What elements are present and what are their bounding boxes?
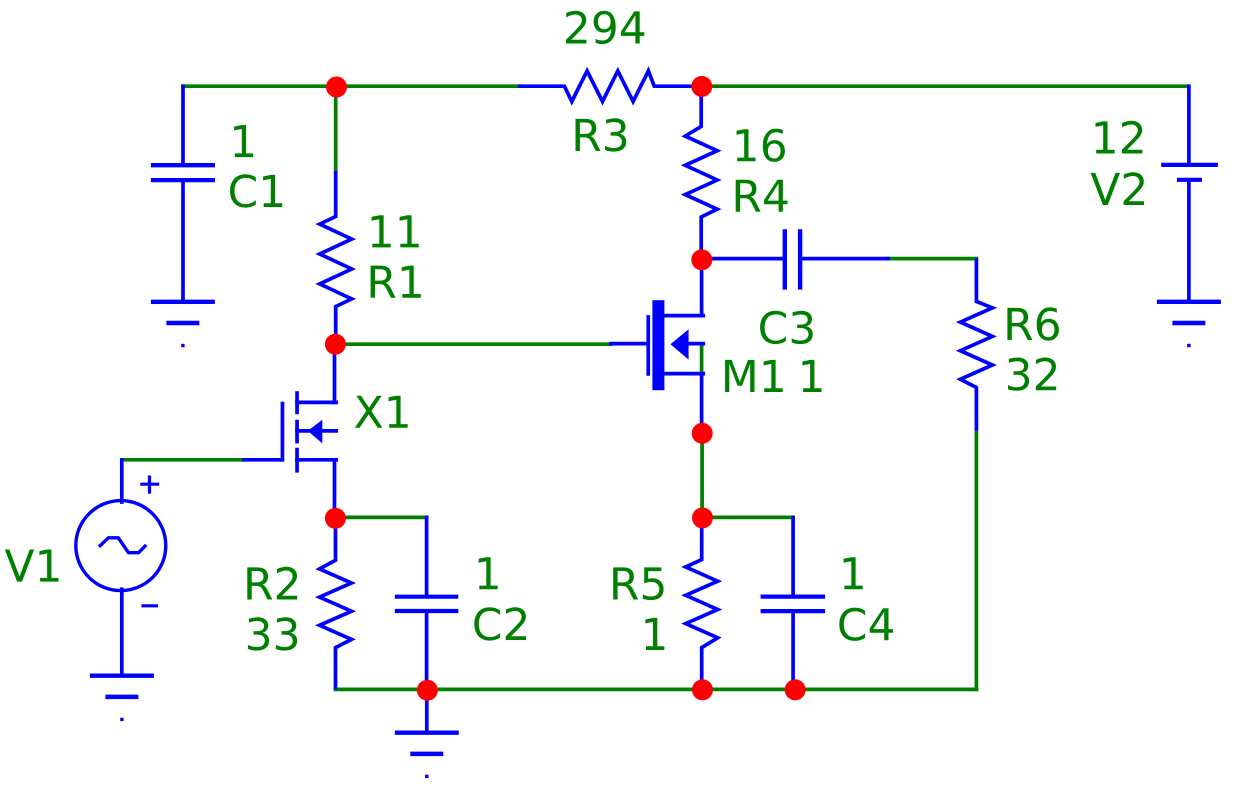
voltage source V1 bottom lead xyxy=(120,589,124,674)
voltage source V2 top lead xyxy=(1187,86,1191,163)
node H junction (C4/rail) xyxy=(785,679,806,700)
value label 1 (C4) xyxy=(844,557,863,589)
transistor X1 gate bar xyxy=(281,402,285,462)
value label 1 (R5) xyxy=(645,618,664,650)
label C2 xyxy=(474,607,526,640)
capacitor C3 left lead xyxy=(702,257,783,261)
capacitor C1 top lead xyxy=(181,86,185,163)
label R3 xyxy=(576,118,627,151)
wire node A down to R1 xyxy=(334,86,338,172)
capacitor C2 top lead xyxy=(425,517,429,594)
label C3 xyxy=(760,311,813,344)
voltage source V2 battery plates xyxy=(1161,165,1218,180)
node D junction (X1 source/R2/C2) xyxy=(325,508,346,529)
value label 16 (R4) xyxy=(737,129,785,162)
label V2 xyxy=(1091,172,1144,205)
capacitor C1 plates xyxy=(151,165,215,180)
node C junction (R1/X1 drain/M1 gate) xyxy=(325,334,346,355)
label M1 xyxy=(725,360,783,392)
transistor X1 gate lead xyxy=(244,458,282,462)
voltage source V1 plus sign xyxy=(140,476,159,494)
wire top rail left (C1 to node A) xyxy=(183,84,520,88)
value label 1 (C2) xyxy=(479,557,498,589)
capacitor C2 bottom lead xyxy=(425,613,429,689)
value label 11 (R1) xyxy=(372,215,419,247)
node A junction xyxy=(326,77,347,98)
node B2 junction (R4/C3/M1 drain) xyxy=(691,249,712,270)
capacitor C4 top lead xyxy=(791,517,795,594)
voltage source V1 top lead xyxy=(120,460,124,502)
voltage source V1 sine wave xyxy=(99,538,146,553)
node F junction (C2/rail/ground) xyxy=(417,680,438,701)
label R2 xyxy=(247,567,297,600)
ground (below C2) xyxy=(395,733,459,778)
transistor M1 drain lead xyxy=(660,314,703,318)
transistor X1 source lead xyxy=(297,458,336,462)
voltage source V1 minus sign xyxy=(141,604,158,607)
wire X1 drain up to node C xyxy=(333,344,337,402)
label C1 xyxy=(230,174,282,207)
wire C3 to R6 corner xyxy=(888,257,976,261)
value label 32 (R6) xyxy=(1008,358,1056,391)
label R1 xyxy=(371,266,421,298)
node B junction xyxy=(691,76,712,97)
wire top rail right (node B to V2) xyxy=(703,84,1188,88)
transistor M1 bulk arrow xyxy=(671,329,689,359)
node E junction (R5/C4) xyxy=(692,507,713,528)
ground (below V1) xyxy=(90,676,154,721)
ground (below V2) xyxy=(1157,302,1221,347)
transistor X1 bulk arrow xyxy=(308,420,323,444)
wire V1 plus to X1 gate xyxy=(122,458,244,462)
label V1 xyxy=(5,550,59,582)
wire node E to C4 xyxy=(703,516,794,520)
value label 294 (R3) xyxy=(566,11,644,44)
label R5 xyxy=(613,567,663,600)
transistor M1 source lead xyxy=(660,372,703,376)
transistor M1 channel bar xyxy=(652,300,664,390)
transistor X1 drain lead xyxy=(297,401,336,405)
wire M1 source down to node xyxy=(700,374,704,433)
transistor M1 gate lead xyxy=(611,342,647,346)
resistor R1 xyxy=(320,171,352,344)
capacitor C1 bottom lead xyxy=(181,182,185,300)
value label 12 (V2) xyxy=(1096,121,1143,154)
wire R6 bottom to ground rail xyxy=(975,430,979,690)
wire X1 source down to node D xyxy=(333,460,337,518)
resistor R4 xyxy=(685,86,717,259)
value label 1 (C1) xyxy=(234,125,253,157)
label C4 xyxy=(839,608,893,641)
wire M1 drain up to node B2 xyxy=(700,259,704,316)
resistor R5 xyxy=(686,518,718,689)
voltage source V2 bottom lead xyxy=(1187,182,1191,300)
label R6 xyxy=(1007,307,1059,340)
node G junction (R5/rail) xyxy=(692,679,713,700)
transistor X1 channel bars xyxy=(295,391,299,472)
node M1-source junction xyxy=(692,423,713,444)
transistor M1 gate bar xyxy=(646,315,650,376)
ground (below C1) xyxy=(151,302,215,347)
resistor R3 xyxy=(518,71,702,102)
capacitor C2 plates xyxy=(395,597,459,611)
resistor R6 xyxy=(960,259,992,431)
capacitor C4 plates xyxy=(761,597,826,612)
wire node F down to ground xyxy=(425,690,429,732)
label X1 xyxy=(355,396,408,428)
voltage source V1 circle xyxy=(76,501,166,591)
transistor M1 bulk lead xyxy=(688,342,703,346)
wire M1 source node to node E xyxy=(700,433,704,517)
label R4 xyxy=(736,180,788,212)
wire bottom ground rail xyxy=(336,688,977,692)
wire M1 bulk to source xyxy=(700,345,704,373)
wire node D to C2 xyxy=(335,516,426,520)
capacitor C3 right lead xyxy=(802,257,888,261)
value label 1 (C3) xyxy=(802,360,821,392)
resistor R2 xyxy=(320,518,352,689)
value label 33 (R2) xyxy=(248,617,297,650)
wire gate net (node C to M1 gate) xyxy=(336,342,611,346)
capacitor C3 plates xyxy=(785,229,800,289)
transistor X1 bulk lead xyxy=(297,429,336,433)
capacitor C4 bottom lead xyxy=(791,613,795,689)
